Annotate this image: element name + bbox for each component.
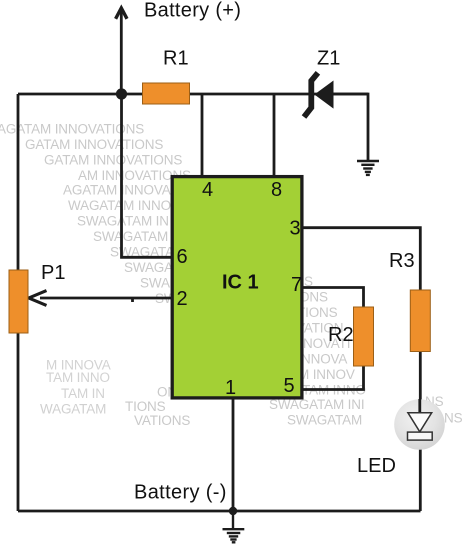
svg-text:SWAGATAM: SWAGATAM bbox=[287, 413, 362, 428]
battery + arrow bbox=[116, 8, 127, 94]
svg-text:GATAM INNOVATIONS: GATAM INNOVATIONS bbox=[25, 137, 163, 152]
svg-text:Battery (-): Battery (-) bbox=[134, 482, 227, 504]
svg-text:TIONS: TIONS bbox=[125, 399, 166, 414]
wire left vertical (battery+ to P1 top) bbox=[17, 94, 20, 270]
svg-text:7: 7 bbox=[291, 274, 302, 296]
potentiometer P1 bbox=[9, 270, 28, 333]
svg-text:VATIONS: VATIONS bbox=[134, 413, 190, 428]
wire pin 1 down to rail bbox=[232, 400, 235, 512]
wire LED to bottom rail bbox=[419, 441, 422, 512]
node small tick on pin2 wire bbox=[131, 298, 134, 302]
svg-text:GATAM INNOVATIONS: GATAM INNOVATIONS bbox=[44, 153, 182, 168]
zener diode Z1 bbox=[304, 73, 334, 117]
wire bottom negative rail bbox=[18, 510, 421, 513]
svg-text:WAGATAM INNO: WAGATAM INNO bbox=[68, 198, 171, 213]
svg-text:2: 2 bbox=[177, 288, 188, 310]
wire R3 to LED bbox=[419, 351, 422, 413]
ground (zener) bbox=[357, 161, 379, 175]
wire pin 7 to R2 bbox=[304, 288, 364, 308]
svg-text:AGATAM INNOVA: AGATAM INNOVA bbox=[63, 183, 171, 198]
svg-text:R1: R1 bbox=[163, 48, 189, 70]
svg-text:P1: P1 bbox=[41, 262, 65, 284]
svg-text:SWAGATAM: SWAGATAM bbox=[93, 229, 168, 244]
wire junction down to pin 6 bbox=[122, 94, 173, 257]
wire R2 to pin 5 bbox=[304, 366, 364, 390]
ground (battery-) bbox=[223, 511, 245, 542]
svg-text:Battery (+): Battery (+) bbox=[144, 0, 241, 22]
resistor R3 bbox=[410, 290, 430, 352]
node junction bottom bbox=[229, 507, 237, 515]
svg-text:R2: R2 bbox=[328, 324, 354, 346]
resistor R2 bbox=[354, 307, 374, 366]
svg-text:NNOVA: NNOVA bbox=[301, 352, 347, 367]
svg-text:Z1: Z1 bbox=[317, 48, 340, 70]
wire P1 bottom to bottom rail bbox=[17, 333, 20, 511]
svg-text:LED: LED bbox=[357, 455, 396, 477]
svg-text:4: 4 bbox=[202, 179, 213, 201]
svg-text:M INNOV: M INNOV bbox=[298, 367, 355, 382]
watermark bbox=[0, 122, 463, 429]
svg-text:SWAGATAM IN: SWAGATAM IN bbox=[77, 214, 169, 229]
svg-text:SWAGA: SWAGA bbox=[124, 260, 173, 275]
svg-text:SWA: SWA bbox=[140, 276, 170, 291]
wire pin 8 up to rail bbox=[273, 94, 276, 175]
svg-text:5: 5 bbox=[284, 375, 295, 397]
svg-text:TAM IN: TAM IN bbox=[61, 386, 105, 401]
svg-text:IC 1: IC 1 bbox=[222, 272, 259, 294]
svg-text:8: 8 bbox=[271, 179, 282, 201]
LED D1 bbox=[394, 399, 445, 450]
IC U1 bbox=[172, 177, 302, 398]
svg-text:1: 1 bbox=[225, 377, 236, 399]
svg-text:6: 6 bbox=[177, 246, 188, 268]
wire zener to ground bbox=[333, 94, 368, 160]
svg-text:TAM INNO: TAM INNO bbox=[46, 370, 110, 385]
wire pin 3 to R3 bbox=[304, 228, 421, 290]
svg-text:3: 3 bbox=[290, 218, 301, 240]
wire pin 2 to P1 wiper bbox=[40, 297, 172, 300]
svg-text:NS: NS bbox=[444, 411, 463, 426]
node junction battery+ bbox=[116, 88, 127, 99]
resistor R1 bbox=[143, 83, 190, 104]
svg-text:R3: R3 bbox=[389, 250, 415, 272]
P1 wiper arrowhead bbox=[29, 291, 47, 306]
svg-text:WAGATAM: WAGATAM bbox=[40, 402, 106, 417]
wire pin 4 up to rail bbox=[201, 94, 204, 175]
wire top positive rail bbox=[18, 93, 368, 96]
